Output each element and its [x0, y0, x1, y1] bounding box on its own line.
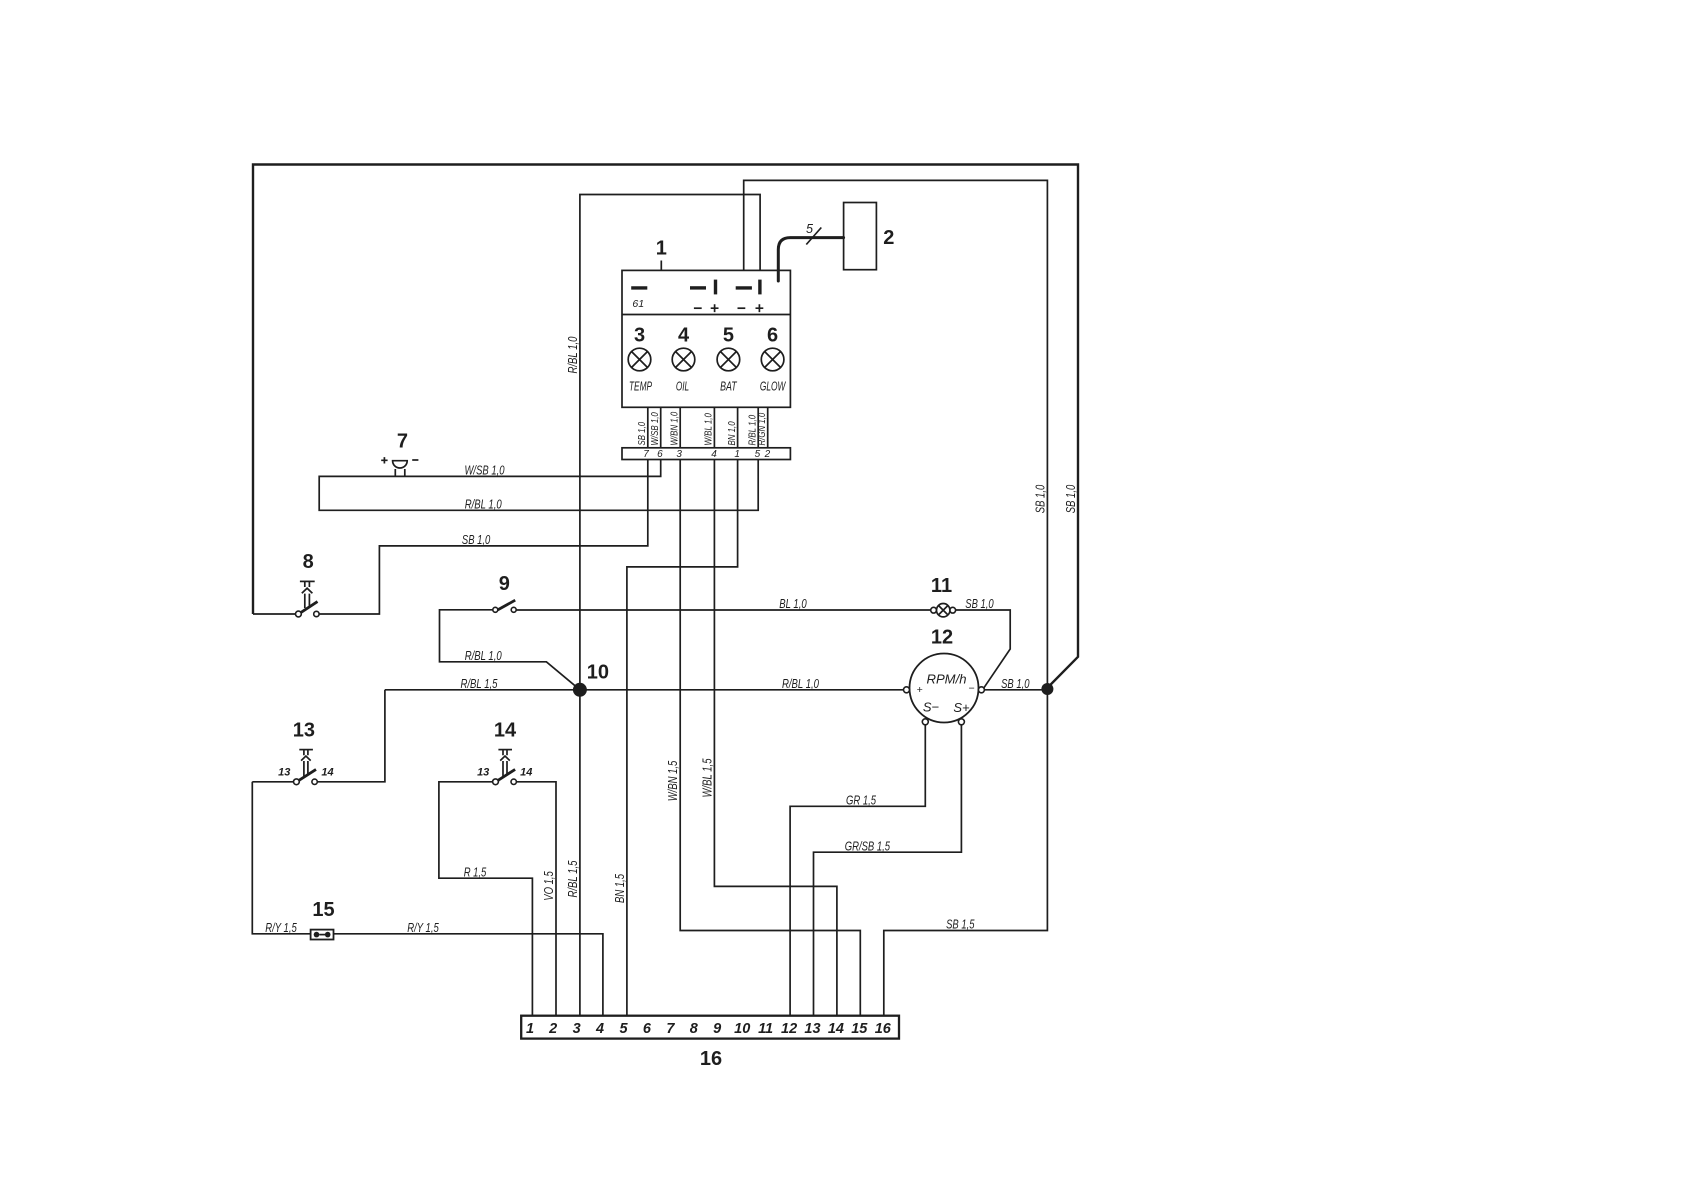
svg-text:SB 1,0: SB 1,0	[1032, 484, 1047, 513]
svg-text:3: 3	[676, 449, 682, 460]
svg-text:7: 7	[643, 449, 649, 460]
svg-text:R/Y 1,5: R/Y 1,5	[407, 920, 439, 935]
svg-text:GLOW: GLOW	[760, 379, 787, 394]
svg-text:5: 5	[619, 1021, 628, 1037]
junction dot at earth loop	[1041, 683, 1053, 695]
svg-text:R/BL 1,5: R/BL 1,5	[461, 676, 499, 691]
svg-text:14: 14	[520, 767, 532, 779]
svg-text:2: 2	[764, 449, 771, 460]
svg-text:GR/SB 1,5: GR/SB 1,5	[845, 838, 891, 853]
oil lamp plus terminal bar	[714, 280, 717, 295]
svg-text:W/BL 1,5: W/BL 1,5	[699, 758, 714, 798]
svg-text:W/BL 1,0: W/BL 1,0	[703, 413, 715, 446]
svg-text:6: 6	[643, 1021, 652, 1037]
wire SB 1,0 from strip pin 7 down-left to switch 8	[319, 460, 648, 615]
wire to switch 13 left terminal	[252, 781, 293, 783]
plus sign	[711, 304, 719, 312]
svg-text:3: 3	[573, 1021, 581, 1037]
svg-text:R 1,5: R 1,5	[464, 864, 487, 879]
wire R/BL 1,5 from switch 13 riser through node 10 to tachometer plus	[385, 689, 904, 691]
svg-text:16: 16	[700, 1048, 722, 1070]
buzzer 7	[381, 431, 418, 477]
svg-text:9: 9	[713, 1021, 721, 1037]
switch 14 (push button)	[477, 719, 532, 784]
svg-text:14: 14	[828, 1021, 844, 1037]
svg-text:6: 6	[767, 325, 778, 347]
svg-text:R/BL 1,0: R/BL 1,0	[465, 496, 503, 511]
svg-text:W/SB 1,0: W/SB 1,0	[465, 463, 506, 478]
wire W/SB 1,0 / R/BL 1,0 loop: strip pin 6 down, left through buzzer, down, right to strip pin 5	[319, 460, 758, 511]
svg-text:BAT: BAT	[720, 379, 737, 394]
svg-text:SB 1,0: SB 1,0	[1001, 676, 1030, 691]
connector 16 body	[521, 1016, 899, 1039]
svg-text:12: 12	[781, 1021, 797, 1037]
svg-text:9: 9	[499, 573, 510, 595]
svg-text:R/Y 1,5: R/Y 1,5	[265, 920, 297, 935]
lamp 3 TEMP	[628, 325, 652, 394]
minus sign	[738, 307, 746, 309]
svg-text:SB 1,5: SB 1,5	[946, 917, 975, 932]
wire GR/SB 1,5 from tachometer S+ to connector pin 13	[814, 725, 962, 1016]
svg-text:−: −	[969, 683, 975, 695]
svg-text:1: 1	[656, 238, 667, 260]
svg-text:12: 12	[931, 626, 953, 648]
lamp 6 GLOW	[760, 325, 787, 394]
wire from earth loop to switch 8	[253, 613, 296, 615]
svg-text:15: 15	[851, 1021, 868, 1037]
wire BN 1,0 instrument to strip pin 1	[737, 408, 739, 448]
svg-text:RPM/h: RPM/h	[927, 672, 967, 687]
svg-text:14: 14	[494, 719, 517, 741]
wire from instrument minus terminal over top right down to junction, then down-left to connector pin 16	[744, 180, 1048, 1015]
svg-text:BL 1,0: BL 1,0	[779, 596, 807, 611]
svg-text:8: 8	[303, 551, 314, 573]
svg-text:BN 1,0: BN 1,0	[726, 421, 738, 445]
svg-text:W/BN 1,5: W/BN 1,5	[665, 760, 680, 801]
svg-text:S−: S−	[923, 700, 940, 715]
tachometer 12	[904, 626, 985, 725]
wire GR 1,5 from tachometer S- to connector pin 12	[790, 725, 925, 1016]
svg-text:13: 13	[477, 767, 489, 779]
svg-text:GR 1,5: GR 1,5	[846, 793, 877, 808]
svg-text:W/SB 1,0: W/SB 1,0	[649, 412, 661, 445]
terminal 61 bar	[631, 286, 647, 289]
svg-text:16: 16	[875, 1021, 892, 1037]
svg-text:+: +	[917, 684, 923, 696]
svg-text:2: 2	[883, 227, 894, 249]
svg-text:R/GN 1,0: R/GN 1,0	[756, 413, 768, 446]
svg-text:SB 1,0: SB 1,0	[1063, 484, 1078, 513]
svg-text:R/BL 1,5: R/BL 1,5	[565, 860, 580, 898]
wire BN: strip pin 1 down, left, down to connector pin 5	[627, 460, 738, 1016]
svg-text:4: 4	[595, 1021, 604, 1037]
wire from switch 13 right terminal up to R/BL 1,5 wire	[318, 690, 385, 782]
svg-text:5: 5	[806, 221, 814, 236]
wire W/BN 1,5: strip pin 3 down to bottom, right to connector pin 15	[680, 460, 860, 1016]
svg-text:SB 1,0: SB 1,0	[462, 532, 491, 547]
minus sign	[694, 307, 702, 309]
svg-text:R/BL 1,0: R/BL 1,0	[465, 648, 503, 663]
svg-text:5: 5	[755, 449, 761, 460]
svg-text:13: 13	[278, 767, 290, 779]
svg-text:4: 4	[711, 449, 717, 460]
harness slash marker	[806, 228, 821, 245]
wire R/GN 1,0 instrument to strip pin 2	[767, 408, 769, 448]
switch 13 (push button)	[278, 719, 333, 784]
wire W/BL 1,5: strip pin 4 down, right to connector pin 14	[714, 460, 837, 1016]
connector 2 body	[844, 203, 877, 270]
switch 8 (push button)	[296, 551, 320, 617]
svg-text:SB 1,0: SB 1,0	[636, 422, 648, 446]
svg-text:S+: S+	[953, 700, 970, 715]
svg-text:7: 7	[666, 1021, 675, 1037]
wire W/SB 1,0 instrument to strip pin 6	[660, 408, 662, 448]
terminal strip under instrument	[622, 448, 790, 460]
svg-text:2: 2	[548, 1021, 557, 1037]
svg-text:BN 1,5: BN 1,5	[612, 873, 627, 903]
svg-text:15: 15	[312, 899, 334, 921]
svg-text:13: 13	[293, 719, 315, 741]
svg-text:61: 61	[632, 298, 644, 310]
wire R/Y 1,5 from switch 13 down, right through splice 15 to connector pin 4	[252, 782, 603, 1016]
oil lamp minus terminal bar	[690, 286, 706, 289]
plus sign	[756, 304, 764, 312]
bat lamp plus terminal bar	[758, 280, 761, 295]
svg-text:SB 1,0: SB 1,0	[965, 596, 994, 611]
lamp 4 OIL	[672, 325, 695, 394]
lamp 11	[931, 575, 956, 617]
svg-text:R/BL 1,0: R/BL 1,0	[782, 676, 820, 691]
wire R/BL 1,0 instrument to strip pin 5	[757, 408, 759, 448]
svg-text:6: 6	[657, 449, 663, 460]
svg-text:1: 1	[526, 1021, 534, 1037]
splice connector 15	[311, 899, 335, 940]
label 1	[656, 238, 667, 271]
lamp 5 BAT	[717, 325, 740, 394]
svg-text:R/BL 1,0: R/BL 1,0	[565, 336, 580, 374]
svg-text:VO 1,5: VO 1,5	[541, 871, 556, 901]
switch 9	[493, 573, 516, 612]
svg-text:13: 13	[804, 1021, 820, 1037]
wire R/BL 1,0 from switch 9 down and diagonal to node 10	[440, 610, 580, 690]
wire main earth loop (switch 8 up over top to right side, down to junction)	[253, 165, 1078, 688]
svg-text:11: 11	[758, 1021, 773, 1037]
wire R 1,5 from switch 14 left terminal down to connector pin 1	[439, 782, 533, 1016]
bat lamp minus terminal bar	[736, 286, 752, 289]
instrument cluster U1 body	[622, 270, 790, 407]
wire BL 1,0 from switch 9 to lamp 11	[516, 609, 931, 611]
svg-text:W/BN 1,0: W/BN 1,0	[669, 412, 681, 446]
wire SB 1,0 tachometer minus to junction	[984, 689, 1047, 691]
svg-text:TEMP: TEMP	[629, 379, 652, 394]
svg-text:5: 5	[723, 325, 734, 347]
svg-text:OIL: OIL	[676, 379, 689, 394]
wire W/BN 1,0 instrument to strip pin 3	[679, 408, 681, 448]
wire VO 1,5 from switch 14 right terminal to connector pin 2	[517, 782, 556, 1016]
wire SB 1,0 from lamp 11 down diagonal to tachometer minus	[956, 610, 1011, 688]
wire R/BL 1,0 from GLOW plus terminal over top, down through node 10 to connector pin 3	[580, 195, 760, 1016]
node 10 junction dot	[573, 683, 587, 697]
wire W/BL 1,0 instrument to strip pin 4	[713, 408, 715, 448]
wire 5-core harness from connector 2 into instrument 1	[778, 238, 843, 281]
svg-text:14: 14	[321, 767, 333, 779]
svg-text:8: 8	[690, 1021, 699, 1037]
svg-text:4: 4	[678, 325, 690, 347]
svg-text:11: 11	[931, 575, 952, 597]
svg-text:7: 7	[397, 431, 408, 453]
svg-text:10: 10	[587, 661, 609, 683]
svg-text:3: 3	[634, 325, 645, 347]
svg-text:10: 10	[734, 1021, 750, 1037]
wire SB 1,0 instrument to strip pin 7	[647, 408, 649, 448]
svg-text:1: 1	[734, 449, 740, 460]
